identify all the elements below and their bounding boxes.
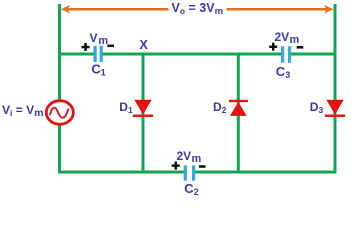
capacitor C1: [94, 46, 103, 62]
svg-text:Vo = 3Vm: Vo = 3Vm: [172, 1, 224, 17]
label minus (C3): [297, 46, 304, 49]
source V1 (AC sine source): [46, 101, 73, 125]
svg-text:2Vm: 2Vm: [177, 149, 202, 165]
svg-text:Vm: Vm: [90, 31, 109, 47]
capacitor C3: [281, 46, 291, 63]
svg-text:D3: D3: [310, 100, 324, 115]
arrow Vo measurement left segment: [61, 5, 169, 14]
wire bottom left segment (left rail to C2): [58, 171, 184, 174]
label minus (C2): [199, 165, 206, 168]
wire top right segment (C3 to right rail): [291, 53, 337, 56]
svg-text:X: X: [140, 38, 149, 52]
svg-text:2Vm: 2Vm: [275, 30, 300, 46]
diode D1 (cathode down): [133, 100, 153, 117]
wire right rail: [334, 4, 337, 172]
wire left rail: [58, 4, 61, 172]
wire D1 branch: [142, 54, 145, 172]
label plus (C3): [269, 43, 277, 51]
svg-text:C3: C3: [276, 64, 290, 80]
label plus (C2): [172, 162, 180, 170]
svg-text:Vi = Vm: Vi = Vm: [2, 103, 43, 119]
label minus (C1): [107, 45, 114, 48]
arrow Vo measurement right segment: [227, 5, 334, 14]
svg-text:C2: C2: [184, 181, 198, 196]
svg-text:D1: D1: [119, 100, 133, 115]
wire bottom right segment (C2 to right rail): [195, 171, 337, 174]
diode D2 (cathode up): [229, 100, 248, 116]
capacitor C2: [184, 165, 196, 180]
svg-text:C1: C1: [91, 62, 105, 78]
wire top middle segment (C1 to C3): [103, 53, 282, 56]
diode D3 (cathode down): [325, 100, 345, 117]
svg-text:D2: D2: [213, 100, 227, 115]
wire D2 branch: [237, 54, 240, 172]
wire top left segment (left rail to C1): [58, 53, 94, 56]
label plus (C1): [82, 43, 90, 51]
